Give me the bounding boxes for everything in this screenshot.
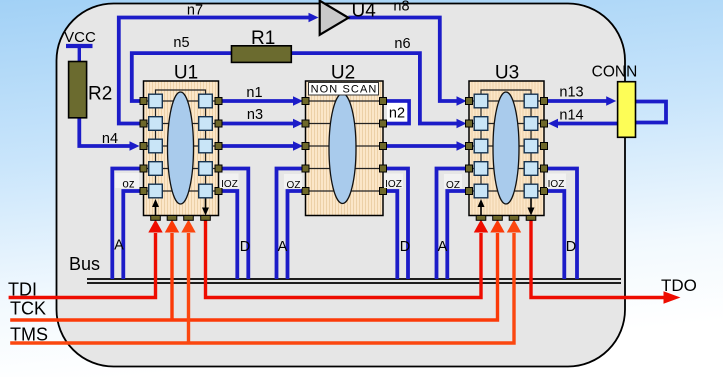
wire n8 net from U4 to U3	[348, 18, 458, 102]
wire n1	[220, 99, 295, 103]
svg-text:CONN: CONN	[592, 64, 638, 81]
arrow n6 into U3 pin2	[457, 119, 467, 128]
resistor R2	[69, 62, 87, 118]
IC U3	[466, 81, 548, 220]
wire n14	[555, 122, 618, 126]
svg-text:n2: n2	[389, 106, 405, 122]
wire n4 net from R2 to U1	[79, 118, 131, 146]
U2 pins	[302, 98, 387, 195]
svg-text:A: A	[114, 238, 124, 254]
connector CONN	[618, 82, 636, 138]
svg-text:n3: n3	[247, 107, 263, 123]
blue wires	[79, 18, 666, 280]
svg-text:NON SCAN: NON SCAN	[311, 84, 378, 96]
wire U1 OZ to bus	[112, 169, 141, 280]
wire CONN loopback	[635, 102, 666, 123]
svg-text:VCC: VCC	[64, 29, 96, 46]
wire U1 IOZ to bus	[221, 169, 248, 280]
svg-text:U3: U3	[495, 63, 519, 84]
svg-text:n13: n13	[559, 85, 583, 101]
arrow n1 into U2	[293, 96, 303, 105]
arrow n14 into U3	[548, 119, 558, 128]
svg-text:A: A	[278, 239, 288, 255]
svg-text:R2: R2	[88, 84, 112, 105]
svg-text:U4: U4	[352, 1, 377, 22]
svg-text:IOZ: IOZ	[548, 179, 565, 190]
wire n13	[548, 99, 609, 103]
red TDO out	[531, 220, 681, 304]
wire n5 / n6 net through R1	[132, 53, 458, 123]
resistor R1	[232, 46, 292, 63]
wire n3	[220, 122, 295, 126]
svg-text:A: A	[438, 239, 448, 255]
arrow n3 into U2	[293, 119, 303, 128]
arrow into U4	[309, 13, 319, 22]
IC U1	[140, 81, 222, 220]
svg-text:n4: n4	[102, 131, 118, 147]
VCC symbol	[66, 46, 93, 62]
wire n7 net	[119, 18, 311, 124]
svg-text:IOZ: IOZ	[385, 179, 402, 190]
red TDI net	[9, 220, 163, 298]
svg-text:n8: n8	[393, 0, 409, 15]
svg-text:Bus: Bus	[69, 254, 100, 274]
svg-text:oz: oz	[122, 179, 134, 191]
svg-text:D: D	[400, 239, 410, 255]
svg-text:U2: U2	[331, 63, 355, 84]
svg-text:OZ: OZ	[287, 180, 301, 191]
wire n2 loop	[386, 101, 409, 124]
svg-text:n14: n14	[559, 107, 583, 123]
svg-text:n1: n1	[246, 85, 262, 101]
svg-text:n5: n5	[173, 35, 189, 51]
arrow n4 into U1 pin3	[130, 141, 140, 150]
svg-text:n6: n6	[394, 36, 410, 52]
red TCK net	[10, 220, 505, 321]
wire U2 to U3 row3	[386, 144, 458, 148]
blue arrowheads	[130, 13, 617, 151]
svg-text:D: D	[240, 239, 250, 255]
wire U2 IOZ to bus	[386, 169, 409, 280]
n2 loop white fill	[387, 103, 407, 122]
red TMS net	[10, 220, 521, 344]
arrow n8 into U3 pin1	[457, 96, 467, 105]
wire U2 OZ to bus	[277, 169, 304, 280]
NON SCAN label box	[309, 83, 379, 96]
svg-text:IOZ: IOZ	[221, 179, 238, 190]
svg-text:TDO: TDO	[661, 276, 697, 295]
board outline	[57, 4, 626, 367]
svg-text:D: D	[566, 239, 576, 255]
svg-text:n7: n7	[187, 3, 203, 19]
svg-text:OZ: OZ	[446, 180, 460, 191]
arrow row3 into U3	[457, 141, 467, 150]
svg-text:R1: R1	[251, 28, 275, 49]
wire U3 IOZ to bus	[547, 169, 578, 280]
arrow row3 into U2	[293, 141, 303, 150]
oz/IOZ label backgrounds	[115, 173, 566, 189]
arrow n13 into CONN	[606, 96, 616, 105]
bus double line	[87, 279, 621, 283]
buffer U4	[320, 1, 349, 35]
svg-text:U1: U1	[174, 63, 198, 84]
wire U3 OZ to bus	[437, 169, 467, 280]
U2 core ellipse	[329, 94, 356, 204]
red U1 TDO to U3 TDI link	[206, 220, 489, 298]
svg-text:TCK: TCK	[10, 299, 46, 319]
wire U1 to U2 row3	[220, 144, 295, 148]
svg-text:TMS: TMS	[10, 325, 48, 345]
IC U2 non-scan	[302, 81, 387, 216]
svg-text:TDI: TDI	[8, 280, 37, 300]
